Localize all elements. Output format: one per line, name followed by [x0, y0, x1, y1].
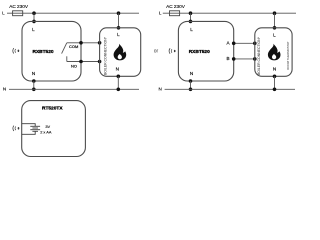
svg-text:L: L — [159, 10, 162, 15]
svg-text:BOILER CONNECTION*: BOILER CONNECTION* — [257, 36, 261, 75]
svg-text:L: L — [273, 32, 276, 37]
svg-text:L: L — [117, 32, 120, 37]
node dot boiler N terminal (right) — [273, 75, 277, 79]
svg-text:2 x AA: 2 x AA — [40, 129, 52, 134]
svg-text:N: N — [3, 87, 6, 92]
svg-text:N: N — [159, 87, 162, 92]
wire N line (right) — [165, 88, 295, 90]
node dot NO terminal — [79, 60, 83, 64]
svg-text:COM: COM — [69, 44, 78, 49]
wire from L line down to boiler L — [118, 13, 120, 28]
svg-text:RXBT520: RXBT520 — [189, 49, 210, 55]
wire COM to boiler — [81, 42, 100, 44]
node dot receiver N terminal — [32, 79, 36, 83]
wire A to boiler — [234, 42, 255, 44]
node dot A terminal — [232, 42, 236, 46]
node dot boiler left terminal (bottom) — [98, 60, 102, 64]
wire from L line down to receiver L terminal — [33, 13, 35, 21]
battery plate short (-) — [32, 130, 38, 132]
svg-text:3V: 3V — [45, 124, 50, 129]
wireless icon (transmitter) — [13, 126, 19, 131]
fuse F2 — [170, 11, 180, 16]
wire L line (right AC live) — [163, 12, 296, 14]
svg-text:L: L — [190, 27, 193, 32]
svg-text:N: N — [190, 71, 193, 76]
wire from L line down to boiler L (right) — [274, 13, 276, 28]
svg-text:BOILER CONNECTION*: BOILER CONNECTION* — [103, 36, 107, 75]
switch COM stub — [67, 42, 81, 44]
svg-text:L: L — [2, 10, 5, 15]
wire L line (left AC live) — [7, 12, 139, 14]
svg-text:L: L — [32, 27, 35, 32]
node dot boiler N terminal — [117, 75, 121, 79]
node dot boiler-stat terminal (bottom) — [253, 57, 257, 61]
node dot boiler left terminal (top) — [98, 41, 102, 45]
svg-text:N: N — [116, 66, 119, 71]
flame icon (right boiler) — [268, 44, 281, 61]
node dot on L line above boiler — [117, 11, 121, 15]
boiler connection box (right) — [255, 28, 292, 77]
node dot on L line above boiler (right) — [273, 11, 277, 15]
svg-text:or: or — [154, 48, 159, 54]
svg-text:N: N — [273, 66, 276, 71]
node dot on N line below boiler — [117, 88, 121, 92]
battery plate long (+) — [30, 125, 40, 127]
svg-text:N: N — [32, 71, 35, 76]
transmitter RT520TX box — [22, 101, 86, 157]
node dot on N line below receiver — [32, 88, 36, 92]
svg-text:B: B — [226, 56, 229, 61]
switch NO contact stub — [66, 56, 68, 61]
node dot receiver L terminal — [32, 20, 36, 24]
wire from L line down to receiver L terminal (right) — [190, 13, 192, 21]
flame icon (left boiler) — [114, 44, 127, 61]
wire receiver N to N line — [33, 81, 35, 89]
fuse F1 — [13, 11, 23, 16]
wire boiler N down to N line (right) — [274, 76, 276, 89]
wireless icon (right receiver) — [169, 48, 175, 53]
wireless icon (left receiver) — [13, 48, 19, 53]
node dot receiver L terminal (right) — [189, 20, 193, 24]
wire B to boiler — [234, 58, 255, 60]
receiver RXBT520 box (left) — [22, 21, 81, 81]
wire NO to boiler — [67, 61, 100, 63]
battery plate long (+) — [30, 129, 40, 131]
svg-text:AC 230V: AC 230V — [166, 4, 186, 9]
node dot on L line above receiver — [32, 11, 36, 15]
wire battery top stub — [22, 124, 36, 127]
node dot boiler L terminal (right) — [273, 26, 277, 30]
receiver RXBT520 box (right) — [178, 21, 233, 81]
node dot COM terminal — [79, 41, 83, 45]
wire battery bottom stub — [22, 131, 36, 134]
svg-text:RT520TX: RT520TX — [42, 105, 63, 111]
node dot on N line below receiver (right) — [189, 88, 193, 92]
node dot boiler L terminal — [117, 26, 121, 30]
node dot receiver N terminal (right) — [189, 79, 193, 83]
svg-text:NO: NO — [71, 63, 77, 68]
switch blade — [62, 43, 67, 54]
node dot boiler-stat terminal (top) — [253, 42, 257, 46]
wire N line (left) — [9, 88, 139, 90]
node dot on L line above receiver (right) — [189, 11, 193, 15]
battery BT1 (2 x AA, 3V) — [22, 124, 40, 135]
svg-text:RXBT520: RXBT520 — [33, 49, 54, 55]
boiler connection box (left) — [100, 28, 141, 77]
svg-text:ROOM THERMOSTAT: ROOM THERMOSTAT — [286, 41, 290, 70]
node dot on N line below boiler (right) — [273, 88, 277, 92]
node dot B terminal — [232, 57, 236, 61]
battery plate short (-) — [32, 127, 38, 129]
svg-text:AC 230V: AC 230V — [9, 4, 29, 9]
wire boiler N down to N line — [117, 76, 119, 89]
wire receiver N to N line (right) — [190, 81, 192, 89]
